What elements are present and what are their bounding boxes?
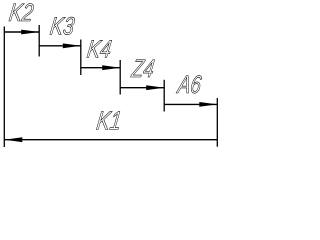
svg-text:K1: K1	[95, 106, 123, 135]
svg-text:A6: A6	[175, 71, 204, 99]
svg-text:Z4: Z4	[129, 54, 156, 82]
svg-text:K2: K2	[7, 0, 35, 26]
svg-text:K4: K4	[85, 35, 113, 63]
svg-text:K3: K3	[48, 12, 76, 40]
